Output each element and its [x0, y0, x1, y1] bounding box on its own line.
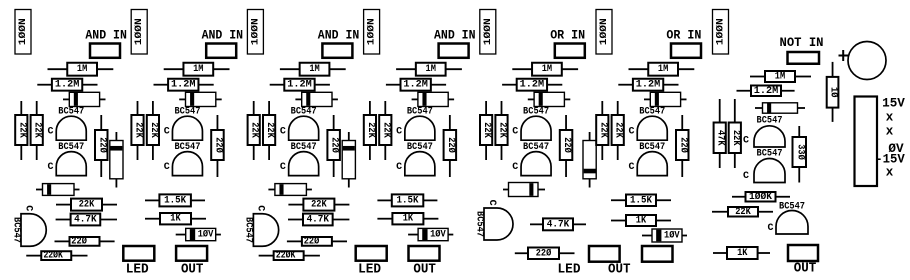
svg-text:1ØØN: 1ØØN — [133, 18, 145, 45]
svg-text:C: C — [512, 127, 518, 138]
transistor Q6b BC547 — [628, 142, 667, 176]
svg-text:BC547: BC547 — [757, 116, 783, 127]
resistor R3c 22K — [248, 101, 260, 160]
svg-text:1ØØN: 1ØØN — [598, 18, 610, 45]
svg-text:-15V: -15V — [875, 153, 905, 167]
svg-text:22Ø: 22Ø — [96, 137, 108, 153]
resistor R7e 22K — [729, 99, 741, 168]
svg-text:AND IN: AND IN — [202, 29, 244, 43]
resistor R1f 22K — [56, 199, 117, 211]
transistor Q2b BC547 — [164, 142, 203, 176]
svg-text:22K: 22K — [730, 130, 741, 146]
svg-text:C: C — [280, 127, 286, 138]
svg-text:BC547: BC547 — [10, 217, 21, 243]
pad LED 1 — [123, 246, 154, 261]
resistor R5g 4.7K — [530, 218, 586, 230]
svg-text:BC547: BC547 — [779, 201, 805, 212]
svg-text:1M: 1M — [309, 64, 319, 75]
svg-text:1ØØN: 1ØØN — [482, 18, 494, 45]
svg-text:C: C — [628, 162, 634, 173]
power terminal block — [855, 97, 878, 187]
svg-text:LED: LED — [558, 261, 581, 277]
svg-text:15V: 15V — [882, 97, 905, 111]
resistor R6c 22K — [596, 101, 608, 160]
resistor R7g 100K — [732, 191, 790, 203]
pad LED 5 — [589, 246, 620, 262]
svg-text:22Ø: 22Ø — [445, 137, 457, 153]
diode D1b 1N4148 — [110, 132, 123, 188]
svg-text:x: x — [886, 166, 894, 180]
transistor Q1b BC547 — [47, 142, 86, 176]
svg-text:22K: 22K — [264, 122, 275, 138]
svg-text:x: x — [886, 111, 894, 125]
svg-text:1.5K: 1.5K — [164, 195, 186, 206]
svg-text:22K: 22K — [32, 122, 43, 138]
resistor R7a 1M — [750, 71, 811, 83]
capacitor C2 100N — [131, 10, 147, 55]
resistor R3e 220 — [327, 115, 340, 177]
svg-text:22Ø: 22Ø — [212, 137, 224, 153]
svg-text:C: C — [512, 162, 518, 173]
zener diode Z5 10V — [642, 229, 687, 242]
resistor R2d 22K — [147, 101, 159, 160]
svg-text:1K: 1K — [737, 248, 747, 259]
zener diode Z1 10V — [176, 228, 221, 240]
pad AND IN input 2 — [206, 44, 236, 58]
resistor R5d 22K — [495, 101, 507, 160]
diode D1a 1N4148 — [63, 92, 106, 106]
svg-text:AND IN: AND IN — [318, 29, 360, 43]
diode D5b 1N4148 — [583, 132, 596, 188]
resistor R5j 1.5K — [611, 195, 671, 207]
svg-text:NOT IN: NOT IN — [780, 36, 824, 50]
svg-text:1.2M: 1.2M — [403, 80, 428, 91]
capacitor C4 100N — [364, 10, 380, 55]
resistor R1g 4.7K — [56, 214, 117, 226]
svg-text:4.7K: 4.7K — [307, 215, 330, 226]
svg-text:22K: 22K — [597, 122, 608, 138]
svg-text:BC547: BC547 — [639, 142, 665, 153]
svg-text:22Ø: 22Ø — [304, 235, 320, 247]
resistor R3k 1K — [377, 213, 438, 225]
svg-text:1.2M: 1.2M — [287, 80, 312, 91]
resistor R1d 22K — [31, 101, 43, 160]
svg-text:C: C — [164, 162, 170, 173]
svg-text:OR IN: OR IN — [666, 29, 701, 43]
svg-text:BC547: BC547 — [174, 107, 200, 118]
svg-text:22Ø: 22Ø — [536, 247, 552, 259]
transistor Q2a BC547 — [164, 107, 203, 141]
svg-text:x: x — [886, 125, 894, 139]
resistor R5a 1M — [512, 63, 578, 76]
resistor R2a 1M — [164, 63, 230, 76]
resistor R7i 1K — [713, 247, 770, 259]
transistor Q5a BC547 — [512, 107, 551, 141]
resistor R3h 220 — [287, 235, 347, 247]
svg-text:C: C — [255, 205, 266, 211]
transistor Q1out BC547 — [10, 205, 46, 246]
capacitor C6 100N — [596, 10, 612, 55]
svg-text:22ØK: 22ØK — [276, 250, 296, 262]
svg-text:BC547: BC547 — [291, 107, 317, 118]
svg-text:1M: 1M — [775, 72, 785, 83]
svg-text:22K: 22K — [365, 122, 376, 138]
resistor R1b 1.2M — [37, 79, 97, 91]
capacitor C7 100N — [713, 10, 729, 55]
power connector circle — [848, 42, 886, 80]
capacitor C5 100N — [480, 10, 496, 55]
svg-text:4.7K: 4.7K — [547, 219, 570, 230]
svg-text:C: C — [628, 127, 634, 138]
resistor R1c 22K — [15, 101, 27, 160]
resistor R1i 220K — [26, 250, 87, 262]
pad OUT 7 — [788, 245, 818, 261]
svg-text:BC547: BC547 — [58, 107, 84, 118]
resistor R5c 22K — [480, 101, 492, 160]
capacitor C1 100N — [15, 10, 31, 55]
svg-text:C: C — [486, 200, 497, 206]
svg-text:22K: 22K — [735, 207, 751, 218]
transistor Q7b BC547 — [743, 149, 785, 183]
resistor R1e 220 — [95, 115, 108, 177]
svg-text:1K: 1K — [403, 214, 413, 225]
transistor Q3b BC547 — [280, 142, 319, 176]
resistor R1a 1M — [48, 63, 114, 76]
zener diode Z3 10V — [408, 228, 453, 240]
resistor R1k 1K — [145, 213, 206, 225]
svg-text:BC547: BC547 — [639, 107, 665, 118]
svg-text:OUT: OUT — [413, 261, 436, 277]
capacitor C3 100N — [247, 10, 263, 55]
svg-text:BC547: BC547 — [407, 107, 433, 118]
resistor R3f 22K — [288, 199, 349, 211]
resistor R6a 1M — [629, 63, 695, 76]
svg-text:33Ø: 33Ø — [794, 144, 806, 160]
svg-text:OUT: OUT — [181, 261, 204, 277]
svg-text:OUT: OUT — [608, 261, 631, 277]
transistor Q1a BC547 — [47, 107, 86, 141]
transistor Q7a BC547 — [743, 116, 785, 147]
svg-text:4.7K: 4.7K — [74, 215, 97, 226]
pad LED 3 — [356, 246, 387, 261]
svg-text:22K: 22K — [249, 122, 260, 138]
svg-text:22Ø: 22Ø — [71, 235, 87, 247]
svg-text:BC547: BC547 — [243, 217, 254, 243]
resistor R3j 1.5K — [377, 194, 437, 206]
svg-text:22K: 22K — [79, 200, 95, 211]
svg-text:22Ø: 22Ø — [677, 137, 689, 153]
svg-text:BC547: BC547 — [58, 142, 84, 153]
resistor R3i 220K — [259, 250, 320, 262]
resistor R1j 1.5K — [145, 194, 205, 206]
transistor Q5b BC547 — [512, 142, 551, 176]
svg-text:LED: LED — [126, 261, 149, 277]
transistor Q7c BC547 — [767, 201, 808, 234]
resistor R6d 22K — [612, 101, 624, 160]
svg-text:22K: 22K — [133, 122, 144, 138]
marker plus sign (power connector polarity) — [839, 50, 849, 61]
resistor R2b 1.2M — [154, 79, 214, 91]
svg-text:C: C — [22, 205, 33, 211]
svg-text:1ØØN: 1ØØN — [249, 18, 261, 45]
svg-text:C: C — [47, 127, 53, 138]
svg-text:22ØK: 22ØK — [43, 250, 63, 262]
resistor R7h 22K — [712, 207, 773, 218]
svg-text:OUT: OUT — [794, 260, 817, 276]
resistor R5k 1K — [611, 215, 671, 227]
resistor R6e 220 — [676, 115, 689, 177]
resistor R3a 1M — [280, 63, 346, 76]
svg-text:C: C — [164, 127, 170, 138]
svg-text:BC547: BC547 — [523, 107, 549, 118]
svg-text:OR IN: OR IN — [550, 29, 585, 43]
svg-text:22K: 22K — [380, 122, 391, 138]
resistor R7f 330 — [793, 126, 807, 183]
svg-text:BC547: BC547 — [291, 142, 317, 153]
pad OUT 1 — [176, 246, 207, 261]
svg-text:1ØV: 1ØV — [664, 230, 680, 242]
transistor Q4b BC547 — [396, 142, 435, 176]
diode D6a 1N4148 — [644, 92, 687, 106]
diode D3b 1N4148 — [342, 132, 355, 188]
svg-text:22K: 22K — [613, 122, 624, 138]
svg-text:BC547: BC547 — [757, 149, 783, 160]
svg-text:22K: 22K — [481, 122, 492, 138]
diode D5c 1N4148 — [503, 183, 545, 197]
resistor R7d 47K — [714, 99, 726, 168]
resistor R3b 1.2M — [270, 79, 330, 91]
svg-text:1ØØN: 1ØØN — [366, 18, 378, 45]
diode D3c 1N4148 — [268, 184, 312, 196]
resistor R3g 4.7K — [288, 214, 349, 226]
diode D4a 1N4148 — [412, 92, 455, 106]
svg-text:1ØØN: 1ØØN — [715, 18, 727, 45]
resistor R6b 1.2M — [618, 79, 678, 91]
pad OR IN input 6 — [671, 44, 701, 58]
svg-text:1.2M: 1.2M — [520, 80, 545, 91]
svg-text:1M: 1M — [193, 64, 203, 75]
svg-text:1ØØK: 1ØØK — [749, 191, 772, 203]
svg-text:C: C — [396, 162, 402, 173]
resistor R4b 1.2M — [386, 79, 446, 91]
transistor Q5out BC547 — [473, 200, 513, 240]
transistor Q6a BC547 — [628, 107, 667, 141]
diode D2a 1N4148 — [179, 92, 222, 106]
svg-text:C: C — [743, 171, 749, 182]
pad OUT 3 — [409, 246, 440, 261]
diode D3a 1N4148 — [295, 92, 338, 106]
svg-text:1ØØN: 1ØØN — [17, 18, 29, 45]
svg-text:1.2M: 1.2M — [754, 86, 779, 97]
svg-text:22Ø: 22Ø — [561, 137, 573, 153]
pad AND IN input 3 — [322, 44, 352, 58]
svg-text:1ØV: 1ØV — [430, 229, 446, 241]
svg-text:1K: 1K — [636, 216, 646, 227]
resistor R2c 22K — [131, 101, 143, 160]
svg-text:C: C — [767, 223, 773, 234]
resistor R5b 1.2M — [502, 79, 562, 91]
resistor R4d 22K — [379, 101, 391, 160]
svg-text:1M: 1M — [542, 64, 552, 75]
svg-text:1Ø: 1Ø — [828, 87, 840, 97]
resistor R4c 22K — [364, 101, 376, 160]
svg-text:BC547: BC547 — [174, 142, 200, 153]
transistor Q3out BC547 — [243, 205, 279, 246]
svg-text:1.2M: 1.2M — [171, 80, 196, 91]
svg-text:22K: 22K — [148, 122, 159, 138]
resistor R5h 220 — [515, 247, 575, 259]
svg-text:47K: 47K — [715, 130, 726, 146]
svg-text:BC547: BC547 — [473, 211, 484, 237]
svg-text:22K: 22K — [311, 200, 327, 211]
pad NOT IN input — [788, 52, 820, 64]
svg-text:22K: 22K — [16, 122, 27, 138]
svg-text:C: C — [280, 162, 286, 173]
svg-text:1M: 1M — [658, 64, 668, 75]
transistor Q3a BC547 — [280, 107, 319, 141]
svg-text:C: C — [396, 127, 402, 138]
svg-text:22K: 22K — [497, 122, 508, 138]
svg-text:AND IN: AND IN — [434, 29, 476, 43]
transistor Q4a BC547 — [396, 107, 435, 141]
svg-text:AND IN: AND IN — [85, 29, 127, 43]
svg-text:1K: 1K — [170, 214, 180, 225]
svg-text:1ØV: 1ØV — [198, 229, 214, 241]
svg-text:BC547: BC547 — [523, 142, 549, 153]
resistor R4a 1M — [396, 63, 462, 76]
resistor R7b 1.2M — [737, 86, 795, 97]
svg-text:C: C — [743, 136, 749, 147]
svg-text:1M: 1M — [77, 64, 87, 75]
svg-text:C: C — [47, 162, 53, 173]
diode D7a 1N4148 — [755, 103, 805, 113]
resistor R2e 220 — [211, 115, 224, 177]
pad AND IN input 1 — [90, 44, 120, 58]
diode D1c 1N4148 — [36, 184, 80, 196]
resistor R1h 220 — [55, 235, 115, 247]
svg-text:BC547: BC547 — [407, 142, 433, 153]
resistor R7c 10 — [827, 62, 840, 122]
svg-text:1.2M: 1.2M — [636, 80, 661, 91]
svg-text:LED: LED — [358, 261, 381, 277]
svg-text:1.2M: 1.2M — [55, 80, 80, 91]
svg-text:1M: 1M — [426, 64, 436, 75]
svg-text:1.5K: 1.5K — [397, 195, 419, 206]
resistor R3d 22K — [263, 101, 275, 160]
resistor R5e 220 — [560, 115, 573, 177]
diode D5a 1N4148 — [528, 92, 571, 106]
svg-text:22Ø: 22Ø — [329, 137, 341, 153]
resistor R4e 220 — [444, 115, 457, 177]
pad OR IN input 5 — [555, 44, 585, 58]
svg-text:1.5K: 1.5K — [630, 195, 652, 206]
pad OUT 5 — [642, 246, 673, 262]
pad AND IN input 4 — [439, 44, 469, 58]
